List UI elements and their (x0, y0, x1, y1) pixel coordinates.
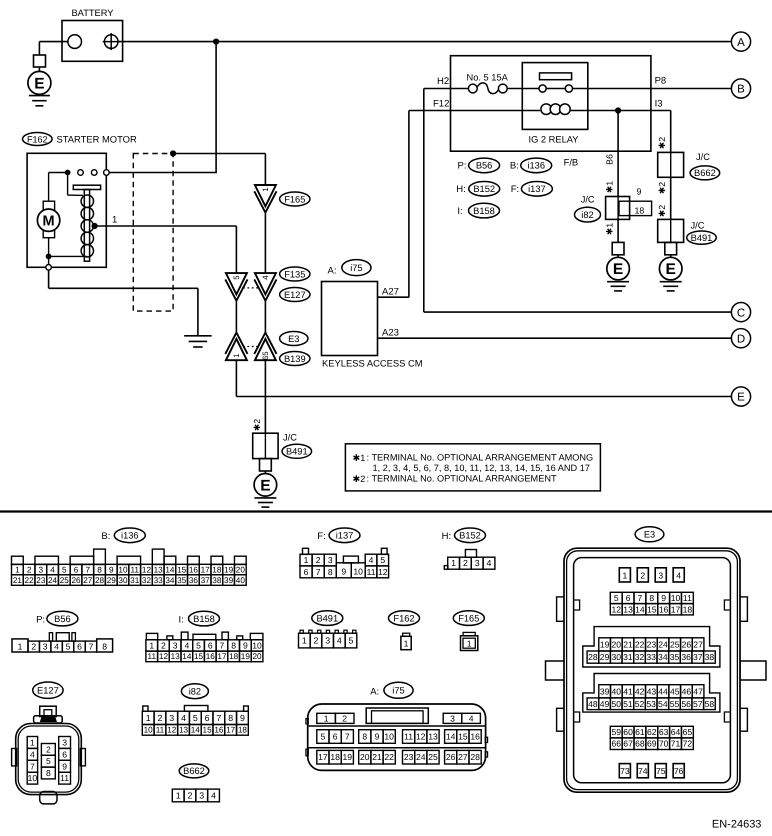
svg-text:24: 24 (48, 576, 58, 585)
svg-text:8: 8 (231, 640, 236, 650)
svg-text:24: 24 (416, 752, 426, 762)
svg-text:1: 1 (232, 354, 241, 358)
svg-text:11: 11 (367, 567, 376, 577)
dashed boundary (133, 154, 173, 312)
svg-text:9: 9 (341, 566, 346, 576)
junction connector i82 (575, 187, 652, 222)
svg-text:E127: E127 (284, 290, 306, 300)
svg-text:4: 4 (369, 555, 374, 565)
svg-text:7: 7 (345, 732, 350, 742)
svg-text:I3: I3 (655, 99, 663, 110)
svg-text:2: 2 (188, 790, 193, 800)
svg-text:21: 21 (623, 639, 633, 649)
svg-text:13: 13 (428, 732, 438, 742)
starter switch contacts (65, 170, 110, 176)
svg-text:5: 5 (349, 636, 354, 646)
svg-text:i75: i75 (350, 263, 362, 273)
svg-text:7: 7 (30, 761, 35, 771)
svg-text:1: 1 (404, 639, 409, 649)
svg-text:60: 60 (623, 727, 633, 737)
svg-text:A:: A: (328, 266, 337, 277)
svg-text:76: 76 (674, 766, 684, 776)
connector pair E3/B139 (225, 332, 310, 366)
svg-text:26: 26 (71, 576, 81, 585)
svg-text:7: 7 (89, 642, 94, 652)
connector B158 label (179, 611, 220, 626)
svg-text:4: 4 (54, 642, 59, 652)
svg-text:✱2: ✱2 (657, 182, 667, 194)
wire H2 to C (424, 89, 732, 313)
svg-text:59: 59 (611, 727, 621, 737)
connector B56 (12, 633, 113, 652)
svg-text:4: 4 (211, 790, 216, 800)
svg-text:53: 53 (646, 699, 656, 709)
svg-text:67: 67 (623, 739, 633, 749)
node B / P8 (655, 76, 751, 99)
svg-text:27: 27 (693, 639, 703, 649)
svg-text:2: 2 (342, 713, 347, 723)
svg-text:i137: i137 (336, 531, 354, 541)
svg-text:32: 32 (635, 652, 645, 662)
svg-text:1: 1 (149, 640, 154, 650)
svg-text:1: 1 (302, 636, 307, 646)
svg-text:BATTERY: BATTERY (71, 8, 113, 18)
svg-text:33: 33 (646, 652, 656, 662)
wire F135 to E3 (236, 301, 265, 333)
relay contact (539, 73, 573, 92)
junction connector B491 upper (658, 219, 717, 244)
svg-text:16: 16 (470, 732, 480, 742)
svg-text:29: 29 (600, 652, 610, 662)
svg-text:F/B: F/B (564, 157, 579, 168)
svg-text:9: 9 (109, 566, 114, 575)
note box (345, 444, 600, 491)
svg-text:14: 14 (182, 652, 192, 661)
svg-text:11: 11 (156, 725, 165, 734)
svg-text:51: 51 (623, 699, 633, 709)
svg-text:11: 11 (130, 566, 139, 575)
svg-text:35: 35 (670, 652, 680, 662)
svg-text:10: 10 (353, 566, 363, 576)
svg-text:1, 2, 3, 4, 5, 6, 7, 8, 10, 11: 1, 2, 3, 4, 5, 6, 7, 8, 10, 11, 12, 13, … (373, 463, 590, 473)
svg-text:68: 68 (635, 739, 645, 749)
svg-text:52: 52 (635, 699, 645, 709)
svg-text:23: 23 (647, 639, 657, 649)
svg-text:E3: E3 (288, 334, 299, 344)
svg-text:i82: i82 (581, 210, 593, 220)
svg-text:11: 11 (148, 652, 157, 661)
svg-text:55: 55 (670, 699, 680, 709)
svg-text:20: 20 (252, 652, 262, 661)
svg-text:15: 15 (203, 725, 213, 734)
svg-text:37: 37 (201, 576, 211, 585)
svg-text:B491: B491 (691, 233, 713, 243)
svg-text:6: 6 (62, 749, 67, 759)
svg-text:25: 25 (670, 639, 680, 649)
svg-text:46: 46 (682, 686, 692, 696)
svg-text:3: 3 (658, 570, 663, 580)
svg-text:1: 1 (304, 555, 309, 565)
wire E3 to E circuit (236, 360, 731, 396)
svg-text:12: 12 (416, 732, 426, 742)
wire A23 to D (378, 327, 732, 338)
svg-text:J/C: J/C (691, 220, 705, 230)
svg-text:31: 31 (130, 576, 140, 585)
svg-text:57: 57 (693, 699, 703, 709)
wire B662 to B491 (657, 177, 671, 219)
svg-text:2: 2 (31, 642, 36, 652)
svg-text:24: 24 (658, 639, 668, 649)
svg-text:✱1: ✱1 (353, 453, 366, 463)
svg-text:2: 2 (640, 570, 645, 580)
svg-text:38: 38 (705, 652, 715, 662)
keyless access CM (322, 260, 423, 369)
fuse box F/B (451, 56, 651, 168)
svg-text:15: 15 (647, 604, 657, 614)
svg-text:i137: i137 (528, 184, 546, 194)
node D (731, 329, 750, 348)
svg-text:4: 4 (487, 558, 492, 568)
svg-text:8: 8 (228, 713, 233, 723)
svg-text:18: 18 (238, 725, 248, 734)
wire i82 to ground (605, 219, 619, 242)
wire battery negative to ground (39, 42, 68, 55)
connector i75 (306, 682, 488, 770)
svg-text:5: 5 (196, 640, 201, 650)
node E (731, 387, 750, 406)
svg-text:3: 3 (475, 558, 480, 568)
svg-text:12: 12 (142, 566, 152, 575)
svg-text:6: 6 (205, 713, 210, 723)
svg-text:5: 5 (321, 732, 326, 742)
svg-text:i136: i136 (121, 531, 139, 541)
svg-text:3: 3 (169, 713, 174, 723)
wire B139 to JC B491 (252, 360, 266, 433)
svg-text:14: 14 (635, 604, 645, 614)
svg-text:2: 2 (46, 744, 51, 754)
svg-text:P:: P: (458, 161, 467, 172)
svg-text:B56: B56 (54, 614, 71, 624)
svg-text:1: 1 (467, 639, 472, 649)
svg-text:5: 5 (380, 555, 385, 565)
node A (731, 32, 750, 51)
svg-text:25: 25 (60, 576, 70, 585)
node dashed corner (170, 150, 176, 156)
svg-text:A27: A27 (382, 286, 399, 297)
svg-text:20: 20 (236, 566, 246, 575)
svg-text:66: 66 (611, 739, 621, 749)
starter motor case ground (46, 265, 198, 336)
svg-text:19: 19 (343, 752, 353, 762)
connector B56 label (36, 611, 78, 626)
svg-text:P:: P: (36, 615, 45, 626)
svg-text:2: 2 (158, 713, 163, 723)
svg-text:F165: F165 (458, 613, 479, 623)
svg-text:18: 18 (635, 205, 645, 215)
svg-text:2: 2 (463, 558, 468, 568)
svg-text:8: 8 (102, 642, 107, 652)
svg-text:EN-24633: EN-24633 (712, 818, 762, 830)
connector F162 pinout (389, 611, 420, 650)
battery (62, 8, 123, 62)
solenoid coil (46, 173, 94, 260)
svg-text:11: 11 (683, 593, 692, 603)
svg-text:B158: B158 (193, 614, 215, 624)
svg-text:12: 12 (167, 725, 177, 734)
svg-text:5: 5 (66, 642, 71, 652)
relay coil (541, 104, 570, 115)
svg-text:F162: F162 (393, 613, 414, 623)
svg-text:F165: F165 (284, 194, 305, 204)
svg-text:1: 1 (146, 713, 151, 723)
svg-text:4: 4 (469, 713, 474, 723)
starter motor F162 (23, 133, 137, 268)
svg-text:7: 7 (638, 593, 643, 603)
svg-text:70: 70 (659, 739, 669, 749)
svg-text:22: 22 (25, 576, 35, 585)
connector B491 pinout (299, 611, 357, 648)
svg-text:12: 12 (378, 567, 388, 577)
svg-text:E: E (613, 261, 623, 278)
svg-text:20: 20 (360, 752, 370, 762)
svg-text:19: 19 (241, 652, 251, 661)
svg-text:F162: F162 (27, 134, 48, 144)
svg-text:23: 23 (36, 576, 46, 585)
svg-text:28: 28 (95, 576, 105, 585)
svg-text:3: 3 (450, 713, 455, 723)
svg-text:40: 40 (236, 576, 246, 585)
svg-text:14: 14 (191, 725, 201, 734)
connector i82 pinout (142, 684, 248, 735)
connector F165 pinout (453, 611, 484, 651)
svg-text:32: 32 (142, 576, 152, 585)
connector pair F135/E127 (225, 267, 310, 302)
junction connector B491 lower (253, 433, 312, 459)
svg-text:10: 10 (671, 593, 681, 603)
svg-text:1: 1 (15, 566, 20, 575)
svg-text:38: 38 (212, 576, 222, 585)
ground E i82 (607, 242, 630, 291)
svg-text:5: 5 (62, 566, 67, 575)
svg-text:✱2: ✱2 (657, 205, 667, 217)
svg-text:I:: I: (457, 206, 462, 217)
svg-text:9: 9 (375, 732, 380, 742)
svg-text:43: 43 (647, 686, 657, 696)
connector i136 (12, 549, 247, 585)
svg-text:48: 48 (588, 699, 598, 709)
svg-text:18: 18 (212, 566, 222, 575)
svg-text:12: 12 (611, 604, 621, 614)
svg-text:10: 10 (384, 732, 394, 742)
svg-text:B152: B152 (459, 531, 481, 541)
svg-text:2: 2 (27, 566, 32, 575)
wire to F165 (173, 154, 265, 186)
svg-text:19: 19 (600, 639, 610, 649)
svg-text:6: 6 (74, 566, 79, 575)
wire H2 row (424, 76, 732, 89)
svg-text:KEYLESS ACCESS CM: KEYLESS ACCESS CM (322, 358, 423, 369)
svg-text:62: 62 (647, 727, 657, 737)
svg-text:6: 6 (333, 732, 338, 742)
svg-text:16: 16 (189, 566, 199, 575)
svg-text:8: 8 (328, 567, 333, 577)
svg-text:71: 71 (671, 739, 681, 749)
svg-text:14: 14 (165, 566, 175, 575)
svg-text:1: 1 (30, 737, 35, 747)
E3 pins 5-18 (610, 592, 693, 615)
svg-text:3: 3 (39, 566, 44, 575)
svg-text:34: 34 (658, 652, 668, 662)
svg-text:1: 1 (451, 558, 456, 568)
svg-text:31: 31 (623, 652, 633, 662)
svg-text:E: E (260, 477, 270, 494)
fuse No.5 15A (467, 73, 509, 94)
svg-text:4: 4 (50, 566, 55, 575)
node starter terminal 1 (92, 215, 118, 230)
svg-text:10: 10 (28, 773, 38, 783)
svg-text:B6: B6 (605, 154, 615, 165)
svg-text:28: 28 (470, 752, 480, 762)
wire I3 branch (657, 111, 671, 153)
svg-text:22: 22 (635, 639, 645, 649)
svg-text:5: 5 (193, 713, 198, 723)
svg-text:C: C (737, 307, 745, 319)
svg-text:D: D (737, 333, 745, 345)
svg-text:7: 7 (220, 640, 225, 650)
svg-text:12: 12 (159, 652, 169, 661)
svg-text:1: 1 (324, 713, 329, 723)
svg-text:13: 13 (171, 652, 181, 661)
svg-text:B:: B: (510, 161, 519, 172)
svg-text:B139: B139 (284, 354, 306, 364)
svg-text:B: B (737, 84, 745, 96)
wire B6 (605, 111, 619, 197)
svg-text:1: 1 (261, 187, 270, 191)
svg-text:7: 7 (216, 713, 221, 723)
svg-text:18: 18 (229, 652, 239, 661)
svg-text:1: 1 (112, 215, 117, 226)
svg-text:40: 40 (612, 686, 622, 696)
svg-text:F:: F: (317, 531, 325, 542)
svg-text:: TERMINAL No. OPTIONAL ARRANG: : TERMINAL No. OPTIONAL ARRANGEMENT AMON… (367, 452, 594, 462)
connector E3 body (546, 548, 767, 792)
svg-text:10: 10 (252, 640, 262, 650)
svg-text:27: 27 (458, 752, 468, 762)
svg-text:18: 18 (683, 604, 693, 614)
svg-text:B491: B491 (286, 447, 308, 457)
connector i136 label (101, 528, 145, 543)
svg-text:4: 4 (30, 749, 35, 759)
svg-text:P8: P8 (655, 76, 667, 87)
svg-text:56: 56 (681, 699, 691, 709)
svg-text:36: 36 (681, 652, 691, 662)
svg-text:✱2: ✱2 (353, 474, 366, 484)
svg-text:30: 30 (118, 576, 128, 585)
svg-text:8: 8 (46, 768, 51, 778)
svg-text:27: 27 (83, 576, 93, 585)
svg-text:B662: B662 (694, 168, 716, 178)
connector B152 (444, 550, 495, 570)
svg-text:47: 47 (693, 686, 703, 696)
svg-text:58: 58 (705, 699, 715, 709)
svg-text:A:: A: (370, 687, 379, 698)
svg-text:29: 29 (107, 576, 117, 585)
svg-text:6: 6 (208, 640, 213, 650)
svg-text:61: 61 (635, 727, 645, 737)
svg-text:1: 1 (622, 570, 627, 580)
svg-text:37: 37 (693, 652, 703, 662)
svg-text:4: 4 (184, 640, 189, 650)
svg-text:26: 26 (682, 639, 692, 649)
svg-text:4: 4 (337, 636, 342, 646)
connector E3 label (635, 527, 664, 542)
connector B662 pinout (172, 764, 219, 802)
svg-text:8: 8 (362, 732, 367, 742)
svg-text:2: 2 (314, 636, 319, 646)
svg-text:: TERMINAL No. OPTIONAL ARRANG: : TERMINAL No. OPTIONAL ARRANGEMENT (367, 473, 557, 483)
svg-text:44: 44 (658, 686, 668, 696)
svg-text:4: 4 (676, 570, 681, 580)
svg-text:i75: i75 (392, 686, 404, 696)
connector i137 (300, 548, 389, 578)
svg-text:E3: E3 (644, 530, 655, 540)
svg-text:63: 63 (659, 727, 669, 737)
svg-text:41: 41 (623, 686, 633, 696)
svg-text:A23: A23 (382, 327, 399, 338)
wire F165 to F135 (264, 213, 266, 274)
svg-text:25: 25 (428, 752, 438, 762)
svg-text:65: 65 (261, 351, 270, 360)
E3 pins 59-72 (610, 726, 693, 749)
svg-text:75: 75 (656, 766, 666, 776)
svg-text:17: 17 (671, 604, 681, 614)
motor M (37, 173, 67, 265)
svg-text:E: E (737, 392, 745, 404)
svg-text:B662: B662 (183, 766, 205, 776)
connector E127 (12, 682, 86, 804)
svg-text:35: 35 (177, 576, 187, 585)
svg-text:9: 9 (637, 187, 642, 197)
svg-text:4: 4 (181, 713, 186, 723)
svg-text:16: 16 (206, 652, 216, 661)
svg-text:5: 5 (614, 593, 619, 603)
svg-text:B152: B152 (473, 184, 495, 194)
svg-text:23: 23 (404, 752, 414, 762)
svg-text:13: 13 (623, 604, 633, 614)
svg-text:49: 49 (600, 699, 610, 709)
svg-text:20: 20 (612, 639, 622, 649)
svg-text:36: 36 (189, 576, 199, 585)
svg-text:54: 54 (658, 699, 668, 709)
svg-text:B158: B158 (473, 206, 495, 216)
svg-text:17: 17 (201, 566, 211, 575)
svg-text:2: 2 (161, 640, 166, 650)
svg-text:9: 9 (661, 593, 666, 603)
svg-text:17: 17 (226, 725, 236, 734)
wire battery to starter switch (109, 42, 217, 173)
svg-text:1: 1 (176, 790, 181, 800)
wire F12 row (409, 99, 671, 111)
svg-text:J/C: J/C (696, 152, 710, 162)
ground E B491 (254, 459, 277, 508)
svg-text:6: 6 (77, 642, 82, 652)
svg-text:3: 3 (325, 636, 330, 646)
relay IG2 box (522, 63, 588, 145)
svg-text:10: 10 (144, 725, 154, 734)
svg-text:F12: F12 (433, 99, 449, 110)
node relay junction (615, 107, 621, 113)
svg-text:E127: E127 (37, 686, 59, 696)
